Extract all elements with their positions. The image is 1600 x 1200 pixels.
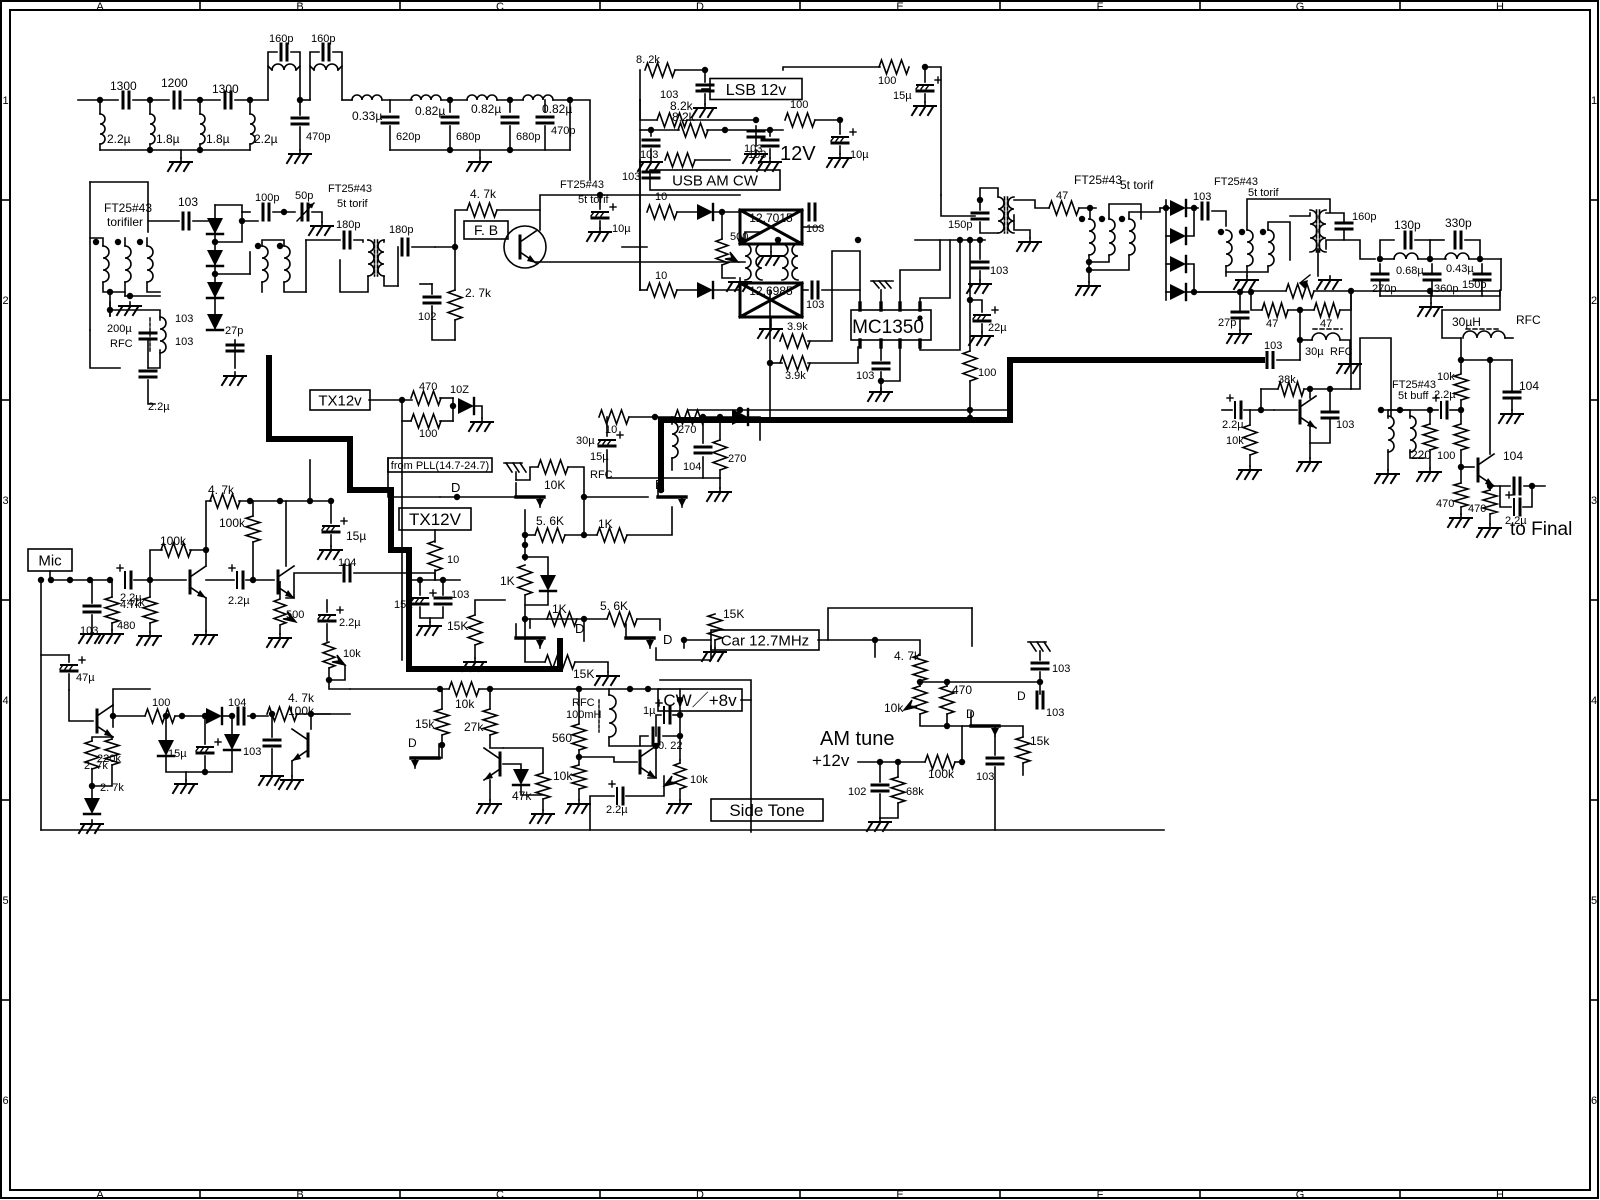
wire xyxy=(439,745,442,758)
diode sidetone xyxy=(513,769,529,785)
wire xyxy=(1039,672,1041,682)
transformer winding 1 xyxy=(103,246,109,282)
svg-text:100: 100 xyxy=(978,367,996,379)
svg-text:103: 103 xyxy=(1052,663,1070,675)
wire xyxy=(875,640,920,655)
diode Q3 xyxy=(84,798,100,814)
svg-text:2. 7k: 2. 7k xyxy=(465,286,492,300)
capacitor 2.2µ #3 xyxy=(318,607,343,621)
wire xyxy=(329,668,350,689)
junction xyxy=(89,783,95,789)
ground bus xyxy=(1418,303,1442,316)
potentiometer 10k sidetone xyxy=(323,642,335,668)
ground tank xyxy=(1317,276,1341,289)
svg-text:1K: 1K xyxy=(598,517,613,531)
transistor mic amp Q2 xyxy=(278,566,294,598)
ground 15K3 xyxy=(702,648,726,661)
diode af1 xyxy=(206,708,222,724)
junction xyxy=(1119,216,1125,222)
thick bus carrier to filter xyxy=(661,360,1012,489)
svg-text:103: 103 xyxy=(243,746,261,758)
svg-text:2.2µ: 2.2µ xyxy=(339,617,361,629)
wire xyxy=(1300,339,1312,341)
wire xyxy=(671,458,673,470)
svg-text:+12v: +12v xyxy=(812,751,850,770)
wire to car box xyxy=(656,646,711,660)
diode af3 xyxy=(224,734,240,750)
wire xyxy=(147,282,160,292)
junction xyxy=(702,67,708,73)
junction xyxy=(1487,357,1493,363)
capacitor 103 #4 xyxy=(748,131,764,137)
svg-text:B: B xyxy=(296,1189,303,1200)
diode ring D2 xyxy=(207,250,223,266)
wire xyxy=(713,211,740,213)
junction xyxy=(522,616,528,622)
junction xyxy=(1397,407,1403,413)
wire xyxy=(1511,400,1513,410)
resistor 15K #2 xyxy=(545,655,575,669)
junction xyxy=(1427,288,1433,294)
junction xyxy=(127,293,133,299)
capacitor 47µ xyxy=(60,657,85,671)
wire xyxy=(369,399,412,401)
wire xyxy=(1246,266,1248,276)
wire xyxy=(1166,207,1170,209)
junction xyxy=(399,397,405,403)
wire collector feed xyxy=(1489,360,1491,454)
wire xyxy=(651,129,679,131)
wire long bottom rail xyxy=(41,829,1164,831)
ground floating slashes xyxy=(871,281,893,288)
wire xyxy=(91,769,93,800)
wire xyxy=(599,195,601,209)
svg-text:15K: 15K xyxy=(447,619,468,633)
wire xyxy=(1460,338,1462,373)
junction xyxy=(627,686,633,692)
ground 4.7k mic xyxy=(99,630,123,643)
wire xyxy=(503,748,543,773)
junction xyxy=(1087,205,1093,211)
ground xtal filter 2 xyxy=(758,325,782,338)
wire tank2 left xyxy=(310,52,319,100)
ground 15K2 xyxy=(595,672,619,685)
wire xyxy=(1089,255,1109,262)
capacitor 360p xyxy=(1424,274,1440,280)
svg-text:330p: 330p xyxy=(1445,216,1472,230)
transformer FT25#43 output xyxy=(368,240,384,276)
wire xyxy=(149,100,151,114)
label box CW／+8v xyxy=(658,689,742,711)
wire xyxy=(1326,213,1344,221)
svg-text:2.2µ: 2.2µ xyxy=(1434,389,1456,401)
wire xyxy=(175,715,206,717)
inductor 0.82µ #2 xyxy=(467,95,497,100)
wire pll to gate xyxy=(388,472,440,497)
wire xyxy=(1500,259,1502,290)
svg-text:12.7015: 12.7015 xyxy=(749,211,793,225)
svg-text:Side Tone: Side Tone xyxy=(729,801,804,820)
wire xyxy=(578,689,580,724)
wire xyxy=(489,689,491,709)
svg-text:100p: 100p xyxy=(255,192,279,204)
wire xyxy=(702,417,704,443)
junction xyxy=(417,577,423,583)
trifilar2 winding c xyxy=(1129,219,1135,255)
wire xyxy=(300,99,310,101)
svg-text:68k: 68k xyxy=(906,786,924,798)
resistor 8.2k usb xyxy=(665,153,695,167)
junction xyxy=(137,239,143,245)
wire xyxy=(565,534,597,536)
resistor 10 c2 xyxy=(599,410,629,424)
capacitor 104 mic xyxy=(344,565,350,581)
label box F. B xyxy=(464,221,508,239)
wire xyxy=(479,688,660,690)
junction xyxy=(1427,407,1433,413)
wire xyxy=(146,238,148,246)
wire xyxy=(249,252,251,274)
junction xyxy=(977,197,983,203)
svg-text:RFC: RFC xyxy=(1330,346,1353,358)
wire xyxy=(199,144,201,150)
wire xyxy=(947,726,962,762)
svg-text:2.2µ: 2.2µ xyxy=(1222,419,1244,431)
svg-text:H: H xyxy=(1496,1,1504,13)
svg-text:103: 103 xyxy=(640,149,658,161)
svg-text:2.2µ: 2.2µ xyxy=(120,592,142,604)
wire xyxy=(1268,222,1290,260)
wire xyxy=(1461,466,1474,468)
wire xyxy=(1429,410,1431,424)
ground trifilar2 xyxy=(1076,282,1100,295)
wire xyxy=(1222,409,1232,411)
svg-text:D: D xyxy=(663,632,672,647)
grid tick right xyxy=(1590,199,1598,201)
wire pin4 to bus xyxy=(920,240,950,303)
wire xyxy=(1225,266,1227,276)
svg-text:47: 47 xyxy=(1056,190,1068,202)
wire xyxy=(311,713,350,715)
wire xyxy=(1186,207,1198,209)
resistor 1K mixer xyxy=(597,528,627,542)
wire xyxy=(1317,249,1319,276)
wire xyxy=(1380,258,1394,260)
wire xyxy=(206,501,211,550)
wire top link to tank xyxy=(1247,199,1330,230)
ground tx12v caps xyxy=(417,622,441,635)
wire xyxy=(279,582,281,598)
junction xyxy=(658,487,664,493)
wire xyxy=(124,238,126,246)
wire xyxy=(648,746,656,778)
junction xyxy=(147,577,153,583)
wire xyxy=(1088,255,1090,270)
junction xyxy=(581,494,587,500)
svg-text:5t torif: 5t torif xyxy=(1248,187,1280,199)
wire xyxy=(1186,264,1194,292)
label box TX12V xyxy=(399,508,471,530)
wire xyxy=(112,705,114,727)
svg-text:A: A xyxy=(96,1189,104,1200)
FET sidetone xyxy=(411,744,439,768)
svg-text:560: 560 xyxy=(552,731,572,745)
junction xyxy=(281,209,287,215)
capacitor 15µ mic xyxy=(322,518,347,532)
capacitor 104 c2 xyxy=(695,447,711,453)
junction xyxy=(681,637,687,643)
grid tick right xyxy=(1590,799,1598,801)
wire xyxy=(981,324,983,332)
ground 470b xyxy=(1477,524,1501,537)
wire xyxy=(268,66,272,70)
svg-text:103: 103 xyxy=(806,299,824,311)
wire xyxy=(1524,485,1545,487)
diode c2 xyxy=(732,409,748,425)
junction xyxy=(1086,259,1092,265)
svg-text:10k: 10k xyxy=(455,697,475,711)
svg-text:FT25#43: FT25#43 xyxy=(328,183,372,195)
inductor 0.82µ #3 xyxy=(523,95,553,100)
wire xyxy=(1277,359,1300,361)
wire xyxy=(521,785,543,795)
wire left rail xyxy=(40,580,42,830)
svg-text:1K: 1K xyxy=(552,602,567,616)
wire xyxy=(525,534,535,536)
wire xyxy=(474,645,476,658)
junction xyxy=(895,759,901,765)
transistor final driver xyxy=(1478,454,1494,486)
wire xyxy=(656,715,661,736)
wire xyxy=(435,246,455,248)
resistor 8.2k xyxy=(645,63,675,77)
wire xyxy=(970,300,982,312)
svg-text:470: 470 xyxy=(952,683,972,697)
junction xyxy=(872,637,878,643)
ground 15u mic xyxy=(318,546,342,559)
wire xyxy=(497,99,523,101)
grid tick top xyxy=(199,2,201,10)
wire xyxy=(1379,264,1381,272)
wire xyxy=(769,130,771,136)
wire xyxy=(490,735,503,748)
svg-text:4. 7k: 4. 7k xyxy=(470,187,497,201)
svg-text:15µ: 15µ xyxy=(346,529,366,543)
resistor 38k xyxy=(1278,382,1304,396)
capacitor 103 am1 xyxy=(1032,663,1048,669)
junction xyxy=(967,297,973,303)
wire xyxy=(606,417,608,436)
wire RFC feed xyxy=(1442,291,1500,338)
junction xyxy=(522,554,528,560)
wire block left side xyxy=(89,182,91,330)
label box Side Tone xyxy=(711,799,823,821)
wire tank1 left xyxy=(268,52,277,100)
svg-text:160p: 160p xyxy=(269,33,293,45)
transformer F.B out b xyxy=(782,244,798,280)
svg-text:47µ: 47µ xyxy=(76,672,95,684)
wire xyxy=(1129,208,1160,219)
ground buffer emitter xyxy=(1297,458,1321,471)
junction xyxy=(775,237,781,243)
wire xyxy=(412,579,460,581)
svg-text:15µ: 15µ xyxy=(893,90,912,102)
wire xyxy=(802,226,820,228)
svg-text:160p: 160p xyxy=(1352,211,1376,223)
wire xyxy=(941,195,975,216)
wire xyxy=(1329,388,1331,390)
junction xyxy=(1297,307,1303,313)
resistor 10K mixer xyxy=(538,460,568,474)
capacitor 27p xyxy=(227,345,243,351)
junction xyxy=(677,733,683,739)
svg-text:10k: 10k xyxy=(884,701,904,715)
wire xyxy=(389,126,391,150)
junction xyxy=(1458,407,1464,413)
wire xyxy=(242,211,250,213)
wire xyxy=(305,240,307,292)
junction xyxy=(1258,407,1264,413)
wire xyxy=(1380,240,1394,259)
capacitor 104 #1 xyxy=(1504,392,1520,398)
wire xyxy=(1304,388,1351,390)
label box from PLL(14.7-24.7) xyxy=(388,458,492,472)
wire xyxy=(291,761,293,776)
svg-text:1300: 1300 xyxy=(212,82,239,96)
IC pin top x=900 xyxy=(898,303,901,310)
wire xyxy=(994,736,996,755)
capacitor 1300 #2 xyxy=(225,92,231,108)
svg-text:0.82µ: 0.82µ xyxy=(471,102,501,116)
junction xyxy=(307,498,313,504)
wire rail2 xyxy=(390,149,570,151)
capacitor 103 modulator xyxy=(183,213,189,229)
junction xyxy=(203,547,209,553)
capacitor 100p xyxy=(263,204,269,220)
wire xyxy=(474,406,482,418)
svg-text:4: 4 xyxy=(1591,695,1597,707)
svg-text:2.2µ: 2.2µ xyxy=(107,132,131,146)
svg-text:5. 6K: 5. 6K xyxy=(536,514,564,528)
5t buff winding a xyxy=(1388,416,1394,452)
junction xyxy=(67,577,73,583)
wire xyxy=(1249,410,1251,425)
wire xyxy=(815,119,840,121)
IC pin bottom x=920 xyxy=(918,340,921,347)
wire xyxy=(584,496,648,498)
wire xyxy=(547,618,607,620)
wire Q3 emitter xyxy=(92,737,113,741)
wire xyxy=(489,780,491,800)
wire xyxy=(1088,218,1090,220)
wire xyxy=(770,317,772,325)
diode ladder D1 xyxy=(1170,200,1186,216)
wire xyxy=(440,420,453,422)
svg-text:5: 5 xyxy=(1591,895,1597,907)
grid tick bottom xyxy=(799,1190,801,1198)
junction xyxy=(179,713,185,719)
junction xyxy=(454,494,460,500)
resistor 47 #1 xyxy=(1262,303,1288,317)
svg-text:470p: 470p xyxy=(551,125,575,137)
trifilar3 winding a xyxy=(1226,230,1232,266)
svg-text:2: 2 xyxy=(1591,295,1597,307)
grid tick left xyxy=(2,399,10,401)
svg-text:0. 22: 0. 22 xyxy=(658,740,682,752)
FET mixer 4 xyxy=(626,624,654,648)
ground 500 xyxy=(267,634,291,647)
svg-text:0.33µ: 0.33µ xyxy=(352,109,382,123)
svg-text:47k: 47k xyxy=(512,789,532,803)
capacitor 470p #2 xyxy=(537,117,553,123)
svg-text:USB AM CW: USB AM CW xyxy=(672,172,759,189)
wire xyxy=(338,66,342,70)
wire xyxy=(879,794,881,818)
wire xyxy=(125,295,160,297)
wire xyxy=(639,160,641,210)
wire 3.9k2 to pin5 xyxy=(808,347,860,363)
wire xyxy=(590,796,614,830)
svg-text:FT25#43: FT25#43 xyxy=(560,179,604,191)
wire xyxy=(1166,235,1170,237)
wire xyxy=(69,690,93,721)
wire xyxy=(402,420,411,422)
wire xyxy=(434,530,436,542)
svg-text:2.2µ: 2.2µ xyxy=(606,804,628,816)
wire xyxy=(1039,682,1041,694)
wire xyxy=(252,501,254,516)
junction xyxy=(38,577,44,583)
wire xyxy=(429,618,431,622)
resistor 470 tx xyxy=(411,391,441,405)
wire xyxy=(627,507,672,535)
svg-text:30µ: 30µ xyxy=(1305,346,1324,358)
wire xyxy=(242,220,258,222)
wire cw enclosure top xyxy=(660,680,751,700)
resistor 15k st xyxy=(435,709,449,735)
svg-text:270p: 270p xyxy=(1372,283,1396,295)
wire xyxy=(1186,208,1194,236)
wire xyxy=(1388,410,1410,418)
capacitor 330p xyxy=(1455,232,1461,248)
wire xyxy=(420,283,432,285)
svg-text:torifiler: torifiler xyxy=(107,215,143,229)
junction xyxy=(202,713,208,719)
wire xyxy=(1088,270,1090,282)
junction xyxy=(1260,229,1266,235)
resistor 4.7k am xyxy=(913,655,927,681)
wire xyxy=(637,619,660,630)
transformer carrier xyxy=(998,197,1014,233)
grid tick bottom xyxy=(1199,1190,1201,1198)
resistor 1K lower xyxy=(547,612,577,626)
capacitor 2.2µ out xyxy=(1506,492,1520,515)
ground mic cap xyxy=(79,630,103,643)
capacitor 150p out xyxy=(1474,274,1490,280)
wire xyxy=(525,591,548,605)
junction xyxy=(507,97,513,103)
wire xyxy=(1511,360,1513,390)
wire xyxy=(420,607,443,618)
wire xyxy=(479,150,481,158)
ground 47k st xyxy=(530,810,554,823)
svg-text:270: 270 xyxy=(728,453,746,465)
inductor RFC 100mH xyxy=(609,695,616,737)
inductor 0.33µ xyxy=(352,95,382,100)
potentiometer 500 xyxy=(716,239,728,265)
capacitor 27p xyxy=(1232,312,1248,318)
svg-text:100: 100 xyxy=(152,697,170,709)
